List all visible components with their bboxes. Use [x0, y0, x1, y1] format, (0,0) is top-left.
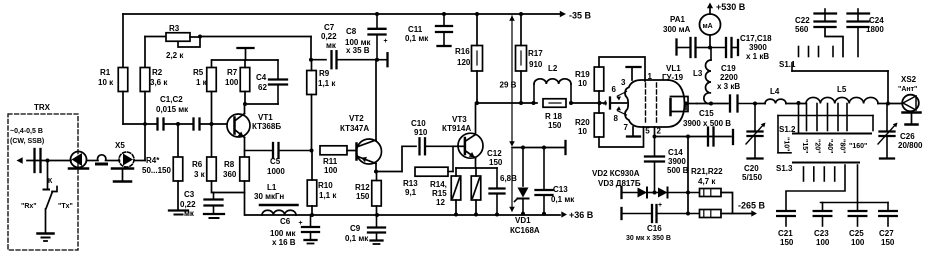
wire R8 bottom [244, 181, 246, 215]
svg-text:150: 150 [356, 192, 370, 201]
inductor L3 [693, 48, 711, 104]
resistor R22 [700, 210, 722, 218]
svg-text:КС168А: КС168А [510, 226, 540, 235]
wire anode [697, 102, 728, 106]
ground stand X5 [112, 169, 133, 182]
ground C9 [371, 241, 383, 245]
capacitor C14 [645, 137, 689, 193]
capacitor C18 [710, 34, 772, 61]
inductor L5 [806, 85, 878, 104]
svg-text:"20": "20" [814, 139, 821, 153]
wire L5 out [878, 102, 890, 106]
node VT1 collector [243, 102, 247, 106]
inductor L1 [254, 183, 298, 215]
resistor R18 [543, 99, 566, 130]
svg-text:R16: R16 [455, 47, 470, 56]
connector XS2 [888, 75, 919, 111]
node C8 rail [375, 12, 379, 16]
svg-text:R2: R2 [152, 68, 163, 77]
svg-text:VT1: VT1 [258, 113, 273, 122]
capacitor C2 [194, 119, 200, 130]
svg-text:+36 В: +36 В [569, 210, 594, 220]
svg-text:100: 100 [851, 238, 865, 247]
svg-text:x 1 кВ: x 1 кВ [746, 52, 769, 61]
svg-text:1,1 к: 1,1 к [319, 191, 337, 200]
svg-text:8: 8 [614, 114, 619, 123]
wire R4 bottom [177, 181, 179, 210]
wire switch [47, 161, 49, 190]
wire emitter to ladder [377, 146, 417, 171]
node C7 right [375, 58, 379, 62]
svg-text:300 мА: 300 мА [663, 25, 690, 34]
svg-text:C9: C9 [350, 224, 361, 233]
wire R5 top [211, 60, 213, 68]
capacitor C19 [717, 64, 755, 112]
svg-text:R21,R22: R21,R22 [691, 167, 723, 176]
tube pin 7 [624, 123, 641, 137]
svg-text:C27: C27 [879, 229, 894, 238]
wire R9 [311, 60, 313, 151]
wire VT3 emitter node [456, 167, 497, 169]
resistor R8 [223, 157, 249, 181]
labels S1.2 bands [783, 137, 868, 153]
svg-text:1 к: 1 к [196, 78, 208, 87]
wire caps bus [821, 165, 889, 210]
svg-text:3900 x 500 В: 3900 x 500 В [683, 119, 731, 128]
wire R15 [475, 168, 477, 215]
switch S1.3 bar [776, 163, 859, 174]
svg-text:x 16 В: x 16 В [272, 238, 296, 247]
label 6.8V [500, 174, 517, 183]
ground XS2 [903, 113, 921, 125]
wire base line VT1 [123, 123, 227, 125]
resistor R10 [307, 180, 337, 206]
wire R11 to VT2 [347, 150, 356, 152]
ground C6 [305, 240, 317, 244]
svg-text:0,22: 0,22 [321, 32, 337, 41]
wire input arrow [17, 157, 48, 164]
svg-text:"15": "15" [801, 139, 808, 153]
svg-text:КТ368Б: КТ368Б [252, 122, 281, 131]
svg-text:C4: C4 [256, 73, 267, 82]
svg-text:0,22: 0,22 [180, 200, 196, 209]
svg-text:C14: C14 [668, 148, 683, 157]
arrow +36V [561, 210, 593, 220]
svg-text:VL1: VL1 [666, 64, 681, 73]
label input level [10, 128, 44, 145]
svg-text:C8: C8 [346, 27, 357, 36]
wire cathode line [655, 135, 732, 139]
switch S1.3 contacts [804, 167, 835, 181]
svg-text:12: 12 [436, 198, 445, 207]
wire drive line [477, 101, 600, 105]
wire R19 loop top [599, 57, 645, 81]
svg-text:R13: R13 [403, 179, 418, 188]
capacitor C12 [487, 149, 505, 215]
svg-text:+530 В: +530 В [716, 2, 746, 12]
svg-text:C19: C19 [721, 64, 736, 73]
capacitor C7 [311, 23, 377, 68]
inductor L2 [534, 64, 571, 103]
wire R1 bottom [122, 92, 124, 125]
capacitor C25 [849, 211, 867, 247]
zener VD1 [510, 148, 540, 236]
terminal T-bar above VT1 [238, 48, 254, 60]
tube heater pin [653, 127, 657, 139]
svg-text:0,1 мк: 0,1 мк [551, 195, 575, 204]
wire R3 right+wiper [178, 35, 202, 48]
resistor R4* [142, 156, 183, 181]
svg-text:62: 62 [258, 83, 267, 92]
svg-text:C11: C11 [408, 25, 423, 34]
svg-text:2: 2 [657, 127, 662, 136]
connector X5 [115, 141, 134, 167]
wire to VT3 base [453, 145, 464, 147]
svg-text:C26: C26 [900, 132, 915, 141]
capacitor C11 [405, 14, 452, 46]
svg-text:ГУ-19: ГУ-19 [662, 73, 684, 82]
wire R3 left [145, 36, 166, 38]
dashed box TRX [8, 114, 78, 250]
svg-text:TRX: TRX [34, 103, 51, 112]
svg-text:50...150: 50...150 [142, 166, 171, 175]
svg-text:R11: R11 [323, 157, 338, 166]
capacitor C5 [245, 143, 312, 176]
svg-text:10: 10 [578, 127, 587, 136]
svg-text:R 18: R 18 [545, 112, 562, 121]
terminal after C8 node [377, 53, 388, 66]
wire tap 160 [778, 116, 873, 131]
label 29 V [500, 81, 517, 90]
wire switch bottom [45, 209, 47, 233]
wire R7 bottom [244, 92, 246, 105]
svg-text:3900: 3900 [668, 157, 686, 166]
diode VD2 [592, 169, 658, 198]
ground R4 [169, 211, 188, 215]
svg-text:0,1 мк: 0,1 мк [345, 234, 369, 243]
wire 6.8 line [512, 146, 564, 150]
svg-text:L5: L5 [837, 85, 847, 94]
svg-text:КТ347А: КТ347А [340, 124, 369, 133]
ground C3 [204, 214, 224, 218]
wire R21 right [721, 193, 733, 214]
pin 4 grid bar [603, 98, 627, 109]
wire rail to R1 [122, 14, 124, 68]
svg-text:"10": "10" [783, 137, 790, 151]
cable link symbol [97, 155, 107, 164]
svg-text:1800: 1800 [866, 25, 884, 34]
wire C21 feed [786, 165, 845, 210]
svg-text:VT3: VT3 [452, 115, 467, 124]
capacitor C26 variable [878, 104, 923, 159]
capacitor C16 [622, 202, 700, 242]
capacitor C1 [158, 119, 164, 130]
svg-text:2200: 2200 [720, 73, 738, 82]
svg-text:C12: C12 [487, 149, 502, 158]
wire input to plug [48, 160, 72, 162]
svg-text:C5: C5 [270, 157, 281, 166]
svg-text:560: 560 [795, 25, 809, 34]
svg-text:R14,: R14, [430, 180, 447, 189]
svg-text:S1.3: S1.3 [776, 164, 793, 173]
svg-text:29 В: 29 В [500, 81, 517, 90]
resistor R13 [403, 146, 453, 197]
wire 36V rail [245, 212, 560, 217]
svg-text:4,7 к: 4,7 к [698, 177, 716, 186]
terminal 6.8 line [564, 141, 566, 154]
svg-text:150: 150 [489, 158, 503, 167]
svg-text:КТ914А: КТ914А [442, 124, 471, 133]
svg-text:C7: C7 [324, 23, 335, 32]
svg-text:0,015 мк: 0,015 мк [156, 105, 189, 114]
label C1 C2 [156, 95, 189, 114]
svg-text:3900: 3900 [749, 43, 767, 52]
svg-text:X5: X5 [115, 141, 125, 150]
svg-text:S1.2: S1.2 [779, 125, 796, 134]
wire R2 bottom [143, 92, 147, 161]
svg-text:C16: C16 [647, 224, 662, 233]
svg-text:R15: R15 [432, 189, 447, 198]
svg-text:100: 100 [324, 166, 338, 175]
svg-text:6,8В: 6,8В [500, 174, 517, 183]
svg-text:мк: мк [326, 41, 337, 50]
transistor VT1 [227, 104, 281, 157]
wire S1.1 rotor [792, 63, 888, 104]
node VT2 emitter [374, 170, 378, 174]
resistor R6 [192, 157, 216, 181]
ground switch [38, 234, 54, 242]
svg-text:4: 4 [603, 101, 607, 108]
capacitor C21 [777, 211, 795, 247]
resistor R5 [193, 68, 216, 92]
svg-text:30 мк x 350 В: 30 мк x 350 В [626, 235, 671, 242]
wire R3 to C7 node [200, 37, 311, 60]
svg-text:R8: R8 [224, 160, 235, 169]
wire R16 [475, 12, 479, 105]
svg-text:C15: C15 [699, 109, 714, 118]
svg-text:100: 100 [816, 238, 830, 247]
svg-text:(CW, SSB): (CW, SSB) [10, 138, 44, 145]
wire rotor S1.2 [798, 103, 800, 133]
tube VL1 envelope [625, 64, 684, 127]
svg-text:7: 7 [624, 123, 629, 132]
svg-text:C17,C18: C17,C18 [740, 34, 772, 43]
node R18 right [569, 101, 573, 105]
wire R6 top [211, 124, 213, 157]
wire R7 top [244, 60, 246, 68]
capacitor C6 [270, 215, 319, 247]
wire C19 to L4 [755, 103, 765, 105]
switch K lever [46, 187, 57, 209]
resistor R3 [166, 24, 190, 60]
wire R14 [455, 168, 457, 215]
svg-text:360: 360 [223, 170, 237, 179]
svg-text:S1.1: S1.1 [779, 60, 796, 69]
wire R10 [311, 151, 313, 215]
node grid [598, 101, 602, 105]
tube pins 5 2 labels [645, 127, 661, 136]
svg-text:"Ант": "Ант" [898, 86, 917, 93]
svg-text:3: 3 [621, 78, 626, 87]
svg-text:L3: L3 [693, 69, 703, 78]
node C20 [753, 102, 757, 106]
svg-text:L4: L4 [770, 87, 780, 96]
switch S1.2 bar [779, 125, 871, 134]
capacitor C17 [677, 38, 711, 57]
svg-text:"Rx": "Rx" [21, 203, 37, 210]
capacitor C24 [848, 9, 885, 57]
wire PA1 down [708, 35, 712, 50]
svg-text:C10: C10 [411, 119, 426, 128]
transistor VT3 [442, 103, 483, 168]
svg-text:VT2: VT2 [349, 114, 364, 123]
svg-text:120: 120 [457, 58, 471, 67]
wire top supply rail -35V [123, 11, 566, 18]
svg-text:x 35 В: x 35 В [346, 46, 370, 55]
label S1.1 [779, 60, 796, 69]
svg-text:VD2 КС930А: VD2 КС930А [592, 169, 640, 178]
svg-text:R19: R19 [575, 70, 590, 79]
svg-text:100 мк: 100 мк [270, 229, 296, 238]
resistor R17 [516, 46, 544, 72]
svg-text:20/800: 20/800 [898, 141, 923, 150]
capacitor C23 [814, 211, 832, 247]
wire grid to tube [600, 102, 607, 104]
svg-text:C20: C20 [744, 164, 759, 173]
svg-text:5/150: 5/150 [742, 173, 763, 182]
svg-text:R1: R1 [100, 68, 111, 77]
wire L4 to L5 [786, 101, 806, 105]
node input [46, 159, 50, 163]
tube grid arrows [612, 85, 627, 123]
svg-text:3 к: 3 к [194, 170, 206, 179]
wire cable to X5 [106, 160, 120, 162]
diode VD3 [598, 179, 700, 198]
svg-text:R10: R10 [318, 181, 333, 190]
capacitor C8 [345, 14, 388, 60]
svg-text:+: + [384, 38, 388, 45]
svg-text:"160": "160" [849, 143, 867, 150]
svg-text:1: 1 [648, 72, 653, 81]
svg-text:К: К [48, 178, 53, 185]
inductor L4 [765, 87, 786, 104]
wire -265V arrow [721, 201, 766, 217]
resistor R7 [225, 68, 250, 92]
wire S1.3 feed [778, 116, 791, 153]
svg-text:C22: C22 [795, 16, 810, 25]
svg-text:R6: R6 [192, 160, 203, 169]
svg-text:C23: C23 [814, 229, 829, 238]
svg-text:10: 10 [578, 79, 587, 88]
svg-text:500 В: 500 В [667, 166, 689, 175]
svg-text:R7: R7 [227, 68, 238, 77]
svg-text:x 3 кВ: x 3 кВ [717, 82, 740, 91]
svg-text:R17: R17 [528, 49, 543, 58]
svg-text:3,6 к: 3,6 к [150, 78, 168, 87]
connector plug XW1 [69, 152, 88, 169]
svg-text:5: 5 [645, 127, 650, 136]
svg-text:VD1: VD1 [515, 216, 531, 225]
node R9 R11 R10 [310, 149, 314, 153]
resistor R2 [140, 68, 168, 92]
label TRX [34, 103, 51, 112]
meter PA1 [663, 14, 721, 35]
resistor R19 [575, 67, 604, 91]
resistor R1 [98, 68, 128, 92]
wire R6 bottom [212, 181, 245, 193]
svg-text:910: 910 [529, 60, 543, 69]
resistor R12 [355, 181, 381, 207]
arrow 29V [509, 16, 515, 147]
svg-text:-35 В: -35 В [569, 11, 592, 21]
capacitor C15 [683, 109, 733, 146]
svg-text:PA1: PA1 [670, 15, 686, 24]
svg-text:мА: мА [703, 23, 713, 30]
wire R19 bottom [598, 91, 600, 113]
svg-text:150: 150 [548, 121, 562, 130]
svg-text:150: 150 [780, 238, 794, 247]
wire to dividers [686, 137, 690, 216]
svg-text:1,1 к: 1,1 к [318, 79, 336, 88]
svg-text:10 к: 10 к [98, 78, 114, 87]
svg-text:L2: L2 [548, 64, 558, 73]
wire R5-R7-C4 top [212, 59, 278, 61]
svg-text:150: 150 [881, 238, 895, 247]
arrow 6.8V [509, 149, 515, 212]
svg-text:R12: R12 [355, 183, 370, 192]
wire plug to cable [87, 160, 99, 162]
svg-text:C25: C25 [849, 229, 864, 238]
svg-text:30 мкГн: 30 мкГн [254, 192, 284, 201]
node C7 left [309, 58, 313, 62]
capacitor C10 [411, 119, 453, 154]
transistor VT2 [340, 60, 382, 172]
svg-text:0,1 мк: 0,1 мк [405, 34, 429, 43]
svg-text:С6: С6 [280, 217, 291, 226]
wire R5 bottom [210, 92, 214, 127]
svg-text:+: + [658, 202, 662, 209]
svg-text:-265 В: -265 В [738, 201, 766, 211]
wire R20 loop bottom [599, 127, 644, 147]
svg-text:R9: R9 [319, 69, 330, 78]
resistor R16 [455, 46, 483, 72]
tube anode [671, 97, 698, 116]
svg-text:R20: R20 [575, 118, 590, 127]
switch S1.1 contacts [799, 47, 834, 57]
wire L5 taps [807, 104, 848, 131]
svg-text:9,1: 9,1 [405, 188, 417, 197]
switch K contact [44, 178, 54, 190]
svg-text:C13: C13 [553, 185, 568, 194]
svg-text:2,2 к: 2,2 к [166, 51, 184, 60]
svg-text:C24: C24 [869, 16, 884, 25]
capacitor C4 [245, 60, 287, 104]
capacitor C3 [180, 190, 223, 218]
wire X5 to R2 column [134, 160, 145, 162]
svg-text:R4*: R4* [146, 156, 160, 165]
capacitor C13 [536, 148, 576, 214]
resistor R9 [307, 69, 337, 95]
wire R17 [519, 12, 523, 105]
svg-text:C1,C2: C1,C2 [160, 95, 183, 104]
svg-text:1000: 1000 [267, 167, 285, 176]
capacitor input [35, 149, 41, 172]
node after C1 [176, 122, 180, 126]
svg-text:мк: мк [184, 209, 195, 218]
svg-text:C21: C21 [778, 229, 793, 238]
wire R12 [376, 172, 378, 215]
svg-text:C3: C3 [184, 190, 195, 199]
